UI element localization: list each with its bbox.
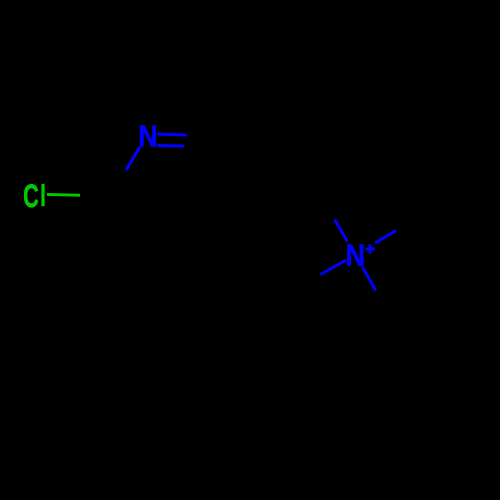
svg-text:C: C <box>23 178 39 214</box>
double bond N1=C6 upper line (nitrogen half, blue) <box>157 134 187 135</box>
bond N+-CH2 lower-left (nitrogen half, blue) <box>321 260 347 274</box>
bond N1-C2 (nitrogen half, blue) <box>126 147 140 170</box>
atom label Cl (chlorine): letter l <box>41 184 44 206</box>
bond N+-CH3 up-right (nitrogen half, blue) <box>375 231 396 243</box>
charge symbol + of N+ <box>365 244 374 253</box>
bond N+-CH3 up-left (nitrogen half, blue) <box>335 220 348 242</box>
bond Cl-C2 (chlorine half, green) <box>47 193 80 197</box>
bond N+-CH3 lower-right (nitrogen half, blue) <box>363 267 376 290</box>
svg-text:N: N <box>138 120 157 154</box>
double bond N1=C6 lower line (nitrogen half, blue) <box>157 144 184 148</box>
